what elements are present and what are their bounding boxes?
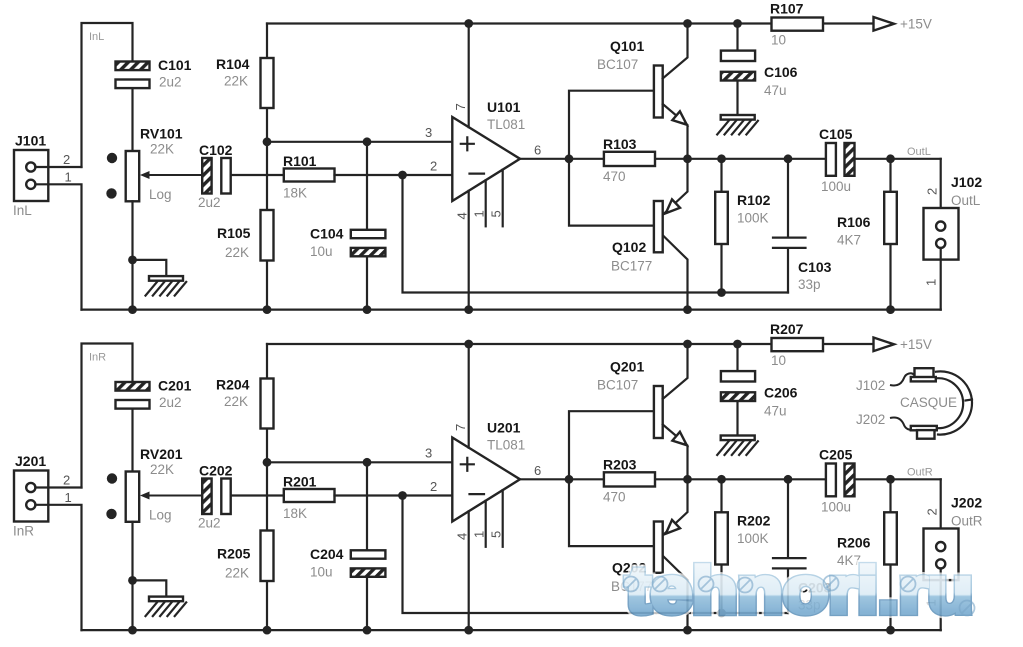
resistor R102	[720, 159, 722, 293]
svg-text:100K: 100K	[737, 531, 769, 546]
svg-text:C204: C204	[310, 546, 344, 562]
svg-text:4: 4	[455, 533, 470, 540]
svg-text:OutL: OutL	[951, 193, 981, 208]
resistor R207	[772, 338, 824, 351]
resistor R202	[720, 479, 722, 613]
junction R206 top	[886, 475, 895, 484]
headphone top earpiece	[915, 368, 934, 377]
junction C203 top	[784, 475, 793, 484]
svg-text:R204: R204	[216, 377, 250, 393]
junction R102 / feedback	[717, 288, 726, 297]
svg-text:C206: C206	[764, 385, 798, 401]
svg-text:10u: 10u	[310, 244, 333, 259]
svg-text:R202: R202	[737, 513, 771, 529]
svg-text:22K: 22K	[225, 245, 249, 260]
wire ground rail	[82, 629, 941, 631]
wire ground rail	[82, 309, 941, 311]
svg-text:22K: 22K	[224, 394, 248, 409]
svg-text:2u2: 2u2	[159, 395, 182, 410]
svg-text:100K: 100K	[737, 211, 769, 226]
U101 pin 1 stub	[485, 180, 487, 226]
svg-text:BC107: BC107	[597, 378, 638, 393]
svg-text:CASQUE: CASQUE	[900, 395, 957, 410]
transistor Q202	[654, 522, 663, 573]
svg-text:5: 5	[489, 210, 504, 217]
svg-text:R105: R105	[217, 225, 251, 241]
svg-text:2: 2	[925, 508, 940, 515]
+15V supply arrow	[874, 17, 895, 31]
svg-text:R203: R203	[603, 457, 637, 473]
wire base drive bracket	[569, 91, 654, 226]
junction pin7 / rail	[464, 19, 473, 28]
wire base drive bracket	[569, 411, 654, 546]
U201 pin 7 (V+)	[468, 344, 470, 448]
svg-text:Log: Log	[149, 187, 172, 202]
svg-text:C104: C104	[310, 226, 344, 242]
svg-text:C101: C101	[158, 57, 192, 73]
junction ground rail / R105	[263, 305, 272, 314]
junction R202 top	[717, 475, 726, 484]
wire output node	[688, 158, 941, 160]
resistor R105	[266, 142, 268, 310]
U201 pin 4 (V-)	[468, 511, 470, 630]
junction ground rail / pin4	[464, 626, 473, 635]
svg-text:U201: U201	[487, 420, 521, 436]
svg-text:4: 4	[455, 212, 470, 219]
svg-text:OutR: OutR	[907, 467, 933, 479]
svg-text:C201: C201	[158, 378, 192, 394]
svg-text:2u2: 2u2	[198, 516, 221, 531]
svg-text:7: 7	[453, 103, 468, 110]
junction feedback / pin2	[398, 171, 407, 180]
svg-text:J102: J102	[856, 378, 885, 393]
transistor Q101	[654, 66, 663, 118]
RV101 terminal dot upper	[107, 153, 117, 163]
svg-text:10: 10	[771, 353, 786, 368]
capacitor C104	[366, 142, 368, 310]
capacitor C102	[202, 158, 211, 194]
op-amp U201	[452, 438, 520, 522]
wire pin3 (+ input)	[267, 461, 452, 463]
capacitor C204	[366, 462, 368, 630]
junction ground rail / RV201	[128, 626, 137, 635]
wire rail mid	[469, 343, 738, 345]
svg-text:TL081: TL081	[487, 438, 525, 453]
junction Q201 collector / rail	[683, 340, 692, 349]
wire J202 pin 1 to ground rail	[940, 569, 942, 631]
svg-text:Q201: Q201	[610, 359, 644, 375]
svg-text:3: 3	[425, 446, 432, 461]
resistor R205	[266, 462, 268, 630]
svg-text:R207: R207	[770, 321, 804, 337]
svg-text:J202: J202	[951, 495, 982, 511]
headband tick	[966, 400, 973, 401]
svg-text:R106: R106	[837, 214, 871, 230]
svg-text:Log: Log	[149, 508, 172, 523]
svg-text:33p: 33p	[798, 277, 821, 292]
svg-text:100u: 100u	[821, 179, 851, 194]
wire C102 to R101	[231, 174, 284, 176]
connector J202	[924, 529, 959, 581]
junction pin7 / rail	[464, 340, 473, 349]
svg-text:470: 470	[603, 169, 626, 184]
wire squiggle J102 to earpiece	[890, 373, 914, 385]
svg-text:C106: C106	[764, 64, 798, 80]
svg-text:100u: 100u	[821, 500, 851, 515]
U201 pin 5 stub	[502, 490, 504, 547]
svg-text:18K: 18K	[283, 186, 307, 201]
wire R201 to pin2 (- input)	[335, 494, 453, 496]
junction output / base drive	[565, 154, 574, 163]
ground (C106)	[721, 115, 755, 120]
svg-text:1: 1	[65, 170, 72, 185]
svg-text:C105: C105	[819, 126, 853, 142]
svg-text:C205: C205	[819, 447, 853, 463]
junction feedback / pin2	[398, 491, 407, 500]
transistor Q102	[654, 201, 663, 252]
wire input loop InR	[82, 344, 133, 488]
junction ground rail / R205	[263, 626, 272, 635]
junction R102 top	[717, 154, 726, 163]
capacitor C101	[116, 62, 150, 71]
wire R101 to pin2 (- input)	[335, 174, 453, 176]
resistor R106	[889, 159, 891, 310]
capacitor C202	[202, 479, 211, 515]
svg-text:2: 2	[430, 159, 437, 174]
svg-text:6: 6	[534, 143, 541, 158]
svg-text:R205: R205	[217, 546, 251, 562]
junction ground rail / pin4	[464, 305, 473, 314]
headphone headband arc	[936, 371, 972, 434]
svg-text:R101: R101	[283, 153, 317, 169]
U101 pin 7 (V+)	[468, 24, 470, 128]
svg-text:6: 6	[534, 463, 541, 478]
svg-text:R104: R104	[216, 56, 250, 72]
junction ground rail / C104	[363, 305, 372, 314]
junction RV101 ground tap	[128, 256, 137, 265]
wire input loop InL	[82, 23, 133, 167]
svg-text:R102: R102	[737, 192, 771, 208]
wire J101 pin2 to input loop	[35, 166, 81, 168]
capacitor C205	[826, 464, 836, 497]
junction C204 tap	[363, 458, 372, 467]
resistor R203	[569, 478, 688, 480]
svg-text:18K: 18K	[283, 506, 307, 521]
wire RV101 bottom to rail	[131, 201, 133, 309]
resistor R101	[284, 169, 335, 182]
wire feedback line	[403, 175, 789, 293]
junction emitters / R203	[683, 475, 692, 484]
wire ground tap	[133, 580, 167, 596]
connector J201	[14, 471, 48, 522]
svg-text:BC107: BC107	[597, 57, 638, 72]
wire to J202 pin 2	[940, 479, 942, 542]
svg-text:2: 2	[63, 152, 70, 167]
RV101 terminal dot lower	[106, 188, 116, 198]
svg-text:4K7: 4K7	[837, 233, 861, 248]
junction Q202 collector / ground rail	[683, 626, 692, 635]
wire J102 pin 1 to ground rail	[940, 248, 942, 310]
svg-text:47u: 47u	[764, 404, 787, 419]
watermark copyright marks	[624, 576, 975, 616]
svg-text:Q102: Q102	[612, 239, 646, 255]
capacitor C206	[736, 344, 738, 436]
svg-text:2: 2	[430, 479, 437, 494]
junction R206 / ground rail	[886, 626, 895, 635]
capacitor C201	[116, 382, 150, 391]
svg-text:7: 7	[453, 424, 468, 431]
svg-text:22K: 22K	[224, 74, 248, 89]
svg-text:tehnori.ru: tehnori.ru	[626, 554, 973, 627]
wire J201 pin1 to ground rail	[35, 505, 81, 630]
potentiometer RV201	[126, 472, 140, 522]
svg-text:R206: R206	[837, 535, 871, 551]
op-amp U101	[452, 117, 520, 201]
svg-text:R107: R107	[770, 1, 804, 17]
svg-text:1: 1	[472, 531, 487, 538]
svg-text:InL: InL	[13, 203, 32, 218]
capacitor C106	[736, 24, 738, 116]
junction Q101 collector / rail	[683, 19, 692, 28]
capacitor C105	[826, 143, 836, 176]
svg-text:1: 1	[924, 279, 939, 286]
svg-text:2: 2	[63, 473, 70, 488]
junction C103 top	[784, 154, 793, 163]
headphone bottom earpiece	[911, 426, 937, 430]
junction emitters / R103	[683, 154, 692, 163]
junction divider / pin3	[263, 458, 272, 467]
resistor R206	[889, 479, 891, 630]
capacitor C103	[787, 159, 789, 293]
resistor R107	[772, 18, 824, 31]
svg-text:+15V: +15V	[900, 17, 932, 32]
svg-text:TL081: TL081	[487, 117, 525, 132]
svg-text:InR: InR	[13, 524, 34, 539]
resistor R103	[569, 158, 688, 160]
svg-text:InR: InR	[89, 352, 106, 364]
svg-text:OutR: OutR	[951, 514, 983, 529]
connector J101	[14, 150, 48, 201]
ground (RV201)	[149, 597, 183, 602]
wire U101 output	[520, 158, 569, 160]
svg-text:J101: J101	[15, 133, 46, 149]
svg-text:47u: 47u	[764, 83, 787, 98]
wire U201 output	[520, 478, 569, 480]
svg-text:2: 2	[925, 188, 940, 195]
ground (RV101)	[149, 276, 183, 281]
svg-text:OutL: OutL	[907, 146, 931, 158]
svg-text:1: 1	[472, 210, 487, 217]
wire squiggle J202 to earpiece	[890, 417, 914, 429]
svg-text:BC177: BC177	[611, 259, 652, 274]
junction C104 tap	[363, 137, 372, 146]
wire J201 pin2 to input loop	[35, 486, 81, 488]
svg-text:Q101: Q101	[610, 38, 644, 54]
junction R106 top	[886, 154, 895, 163]
resistor R201	[284, 489, 335, 502]
wire ground tap	[133, 260, 167, 276]
svg-text:C102: C102	[199, 142, 233, 158]
svg-text:22K: 22K	[150, 462, 174, 477]
RV201 terminal dot upper	[107, 473, 117, 483]
svg-text:C202: C202	[199, 463, 233, 479]
ground (C206)	[721, 436, 755, 441]
resistor R104	[266, 24, 268, 142]
wire to J102 pin 2	[940, 159, 942, 222]
wire C101 to RV101	[131, 88, 133, 151]
junction divider / pin3	[263, 137, 272, 146]
wire rail mid	[469, 22, 738, 24]
junction ground rail / RV101	[128, 305, 137, 314]
svg-text:3: 3	[425, 125, 432, 140]
wire RV201 bottom to rail	[131, 522, 133, 630]
junction C106 / rail	[733, 19, 742, 28]
junction ground rail / C204	[363, 626, 372, 635]
wire C201 to RV201	[131, 409, 133, 472]
junction output / base drive	[565, 475, 574, 484]
svg-text:InL: InL	[89, 31, 104, 43]
svg-text:5: 5	[489, 531, 504, 538]
junction Q102 collector / ground rail	[683, 305, 692, 314]
svg-text:22K: 22K	[225, 566, 249, 581]
wire pin3 (+ input)	[267, 141, 452, 143]
svg-text:J102: J102	[951, 174, 982, 190]
junction C206 / rail	[733, 340, 742, 349]
svg-text:R103: R103	[603, 136, 637, 152]
svg-text:R201: R201	[283, 474, 317, 490]
U101 pin 5 stub	[502, 170, 504, 227]
svg-text:1: 1	[65, 490, 72, 505]
junction R202 / feedback	[717, 609, 726, 618]
wire J101 pin1 to ground rail	[35, 184, 81, 309]
wire output node	[688, 478, 941, 480]
svg-text:+15V: +15V	[900, 337, 932, 352]
svg-text:10u: 10u	[310, 565, 333, 580]
RV201 terminal dot lower	[106, 509, 116, 519]
svg-text:2u2: 2u2	[159, 75, 182, 90]
svg-text:470: 470	[603, 490, 626, 505]
wire +15V rail left	[267, 343, 874, 345]
svg-text:J201: J201	[15, 453, 46, 469]
svg-text:2u2: 2u2	[198, 195, 221, 210]
svg-text:22K: 22K	[150, 142, 174, 157]
transistor Q201	[654, 386, 663, 438]
wire +15V rail left	[267, 22, 874, 24]
svg-text:J202: J202	[856, 412, 885, 427]
svg-text:RV101: RV101	[140, 126, 183, 142]
resistor R204	[266, 344, 268, 462]
svg-text:RV201: RV201	[140, 446, 183, 462]
+15V supply arrow	[874, 338, 895, 352]
junction R106 / ground rail	[886, 305, 895, 314]
junction RV201 ground tap	[128, 576, 137, 585]
wire feedback line	[403, 496, 789, 614]
svg-text:10: 10	[771, 33, 786, 48]
U201 pin 1 stub	[485, 501, 487, 547]
connector J102	[924, 208, 959, 260]
wire C202 to R201	[231, 494, 284, 496]
svg-text:U101: U101	[487, 99, 521, 115]
U101 pin 4 (V-)	[468, 191, 470, 310]
svg-text:C103: C103	[798, 259, 832, 275]
potentiometer RV101	[126, 151, 140, 201]
capacitor C203	[787, 479, 789, 613]
